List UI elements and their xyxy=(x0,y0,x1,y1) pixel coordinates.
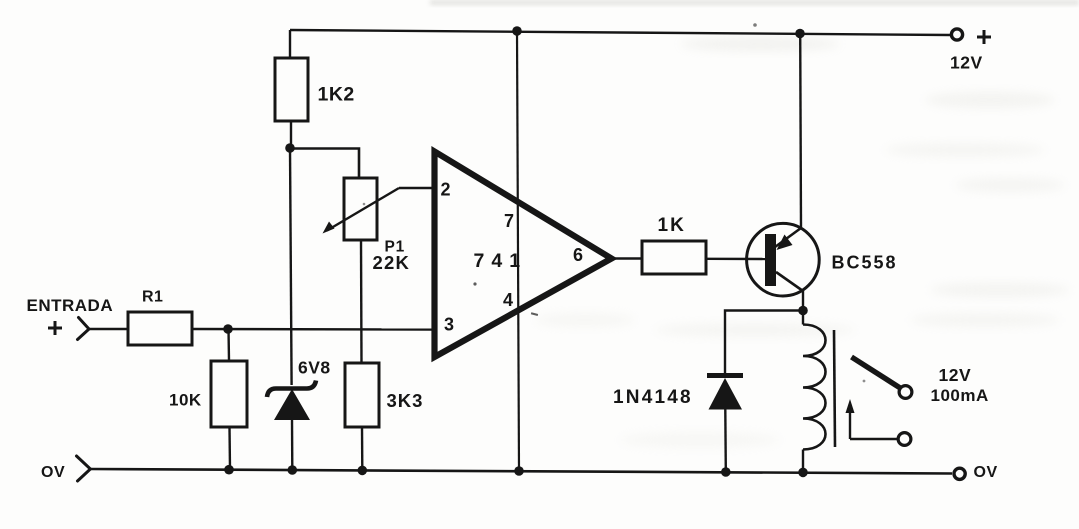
resistor R2 1K2 xyxy=(275,30,355,148)
wire 1K to base xyxy=(706,258,766,261)
resistor R1 xyxy=(128,289,192,346)
diode D1 1N4148 xyxy=(613,373,743,471)
node junction collector / diode / relay xyxy=(798,306,808,316)
svg-text:6V8: 6V8 xyxy=(298,358,331,378)
wire P1 wiper to op-amp pin 2 xyxy=(399,187,432,189)
node junction pin7 to top rail xyxy=(512,26,522,36)
svg-text:22K: 22K xyxy=(373,252,411,273)
terminal +12V xyxy=(950,29,991,73)
wire op-amp output xyxy=(611,257,642,259)
svg-text:1K2: 1K2 xyxy=(318,84,355,106)
wire collector node to diode xyxy=(725,311,803,375)
resistor R4 3K3 xyxy=(345,363,423,470)
transistor Q1 BC558 xyxy=(747,223,898,296)
wire input to R1 xyxy=(89,328,128,331)
input terminal ENTRADA + xyxy=(27,296,114,340)
svg-text:12V: 12V xyxy=(939,365,972,385)
node junction pin4 / rail xyxy=(514,466,524,476)
wire junction down to zener xyxy=(290,148,292,385)
wire top +12V supply rail xyxy=(290,30,950,35)
paper specks (decorative) xyxy=(473,282,476,285)
svg-text:100mA: 100mA xyxy=(931,386,989,405)
svg-text:1N4148: 1N4148 xyxy=(613,387,693,408)
node junction zener / rail xyxy=(288,465,298,475)
resistor R3 10K xyxy=(169,329,247,470)
wire emitter to +12V rail xyxy=(799,34,802,229)
node junction 10K / rail xyxy=(224,465,234,475)
resistor R5 1K xyxy=(642,215,706,274)
wire collector down xyxy=(802,291,804,311)
svg-text:2: 2 xyxy=(441,180,451,200)
svg-text:OV: OV xyxy=(974,464,998,481)
svg-text:6: 6 xyxy=(573,245,583,265)
node junction input divider xyxy=(223,324,233,334)
zener diode D2 6V8 xyxy=(267,358,331,471)
wire P1 bottom to 3K3 xyxy=(360,240,363,363)
scan background smudges (decorative) xyxy=(430,0,1079,448)
svg-text:4: 4 xyxy=(503,290,513,310)
relay coil K1 xyxy=(803,311,835,472)
node junction 3K3 / rail xyxy=(358,466,368,476)
wire supply pin7 / pin4 vertical xyxy=(517,32,519,472)
svg-text:1K: 1K xyxy=(658,215,686,236)
terminal 0V right xyxy=(954,464,998,481)
svg-text:12V: 12V xyxy=(950,53,983,73)
wire junction to P1 top xyxy=(290,149,359,179)
wire R1 to op-amp pin 3 xyxy=(192,328,432,331)
terminal 0V left xyxy=(41,456,90,481)
svg-text:BC558: BC558 xyxy=(832,253,898,273)
label contact rating 12V 100mA xyxy=(931,365,989,405)
svg-text:7: 7 xyxy=(504,211,514,231)
node junction emitter / top rail xyxy=(795,29,805,39)
svg-text:OV: OV xyxy=(41,464,65,481)
svg-text:R1: R1 xyxy=(142,289,163,306)
node junction relay / rail xyxy=(798,468,808,478)
wire bottom 0V rail xyxy=(90,469,952,474)
svg-text:10K: 10K xyxy=(169,391,202,410)
svg-text:3K3: 3K3 xyxy=(387,390,424,411)
relay switch contact xyxy=(846,357,912,445)
node junction 1K2 / zener / P1 xyxy=(285,143,295,153)
potentiometer P1 22K xyxy=(323,178,411,273)
svg-text:ENTRADA: ENTRADA xyxy=(27,296,114,315)
node junction diode / rail xyxy=(721,467,731,477)
op-amp U1 741 xyxy=(435,152,612,358)
svg-text:3: 3 xyxy=(444,315,454,335)
